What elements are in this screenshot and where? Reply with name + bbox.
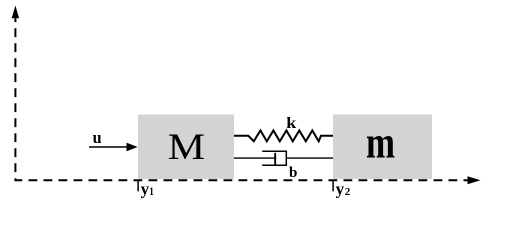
svg-text:k: k	[286, 115, 296, 132]
svg-text:u: u	[93, 128, 102, 147]
svg-text:1: 1	[149, 186, 154, 198]
svg-text:y: y	[141, 180, 150, 199]
svg-text:2: 2	[345, 186, 351, 198]
svg-text:M: M	[168, 127, 205, 168]
svg-text:m: m	[366, 117, 395, 167]
svg-text:y: y	[336, 180, 345, 199]
svg-text:b: b	[289, 165, 297, 181]
